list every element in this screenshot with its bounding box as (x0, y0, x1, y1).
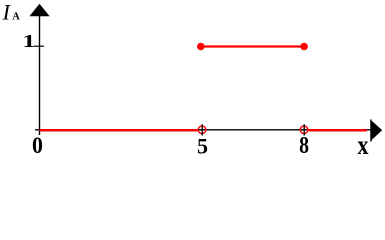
filled endpoint dot at (8,1) (300, 43, 308, 51)
open circle at x=5 (198, 126, 206, 134)
red zero segment 8 to arrow (309, 129, 367, 132)
svg-text:A: A (12, 11, 20, 22)
svg-text:x: x (358, 131, 369, 161)
filled endpoint dot at (5,1) (197, 43, 205, 51)
red unit segment from 5 to 8 (201, 45, 304, 47)
red zero segment 0 to 5 (40, 129, 198, 132)
x-axis arrowhead base line (370, 119, 372, 141)
x tick at 8 (303, 124, 305, 135)
svg-text:1: 1 (22, 32, 35, 52)
y tick at 1 (34, 45, 44, 47)
x-axis arrowhead (371, 120, 382, 141)
svg-text:8: 8 (299, 131, 309, 158)
svg-text:I: I (2, 0, 12, 24)
y-axis (39, 10, 41, 135)
x tick at 5 (201, 124, 203, 135)
x-axis (35, 129, 371, 131)
open circle at x=8 (300, 126, 308, 134)
svg-text:5: 5 (197, 133, 208, 158)
svg-text:0: 0 (32, 133, 43, 159)
y-axis arrowhead (29, 4, 49, 16)
